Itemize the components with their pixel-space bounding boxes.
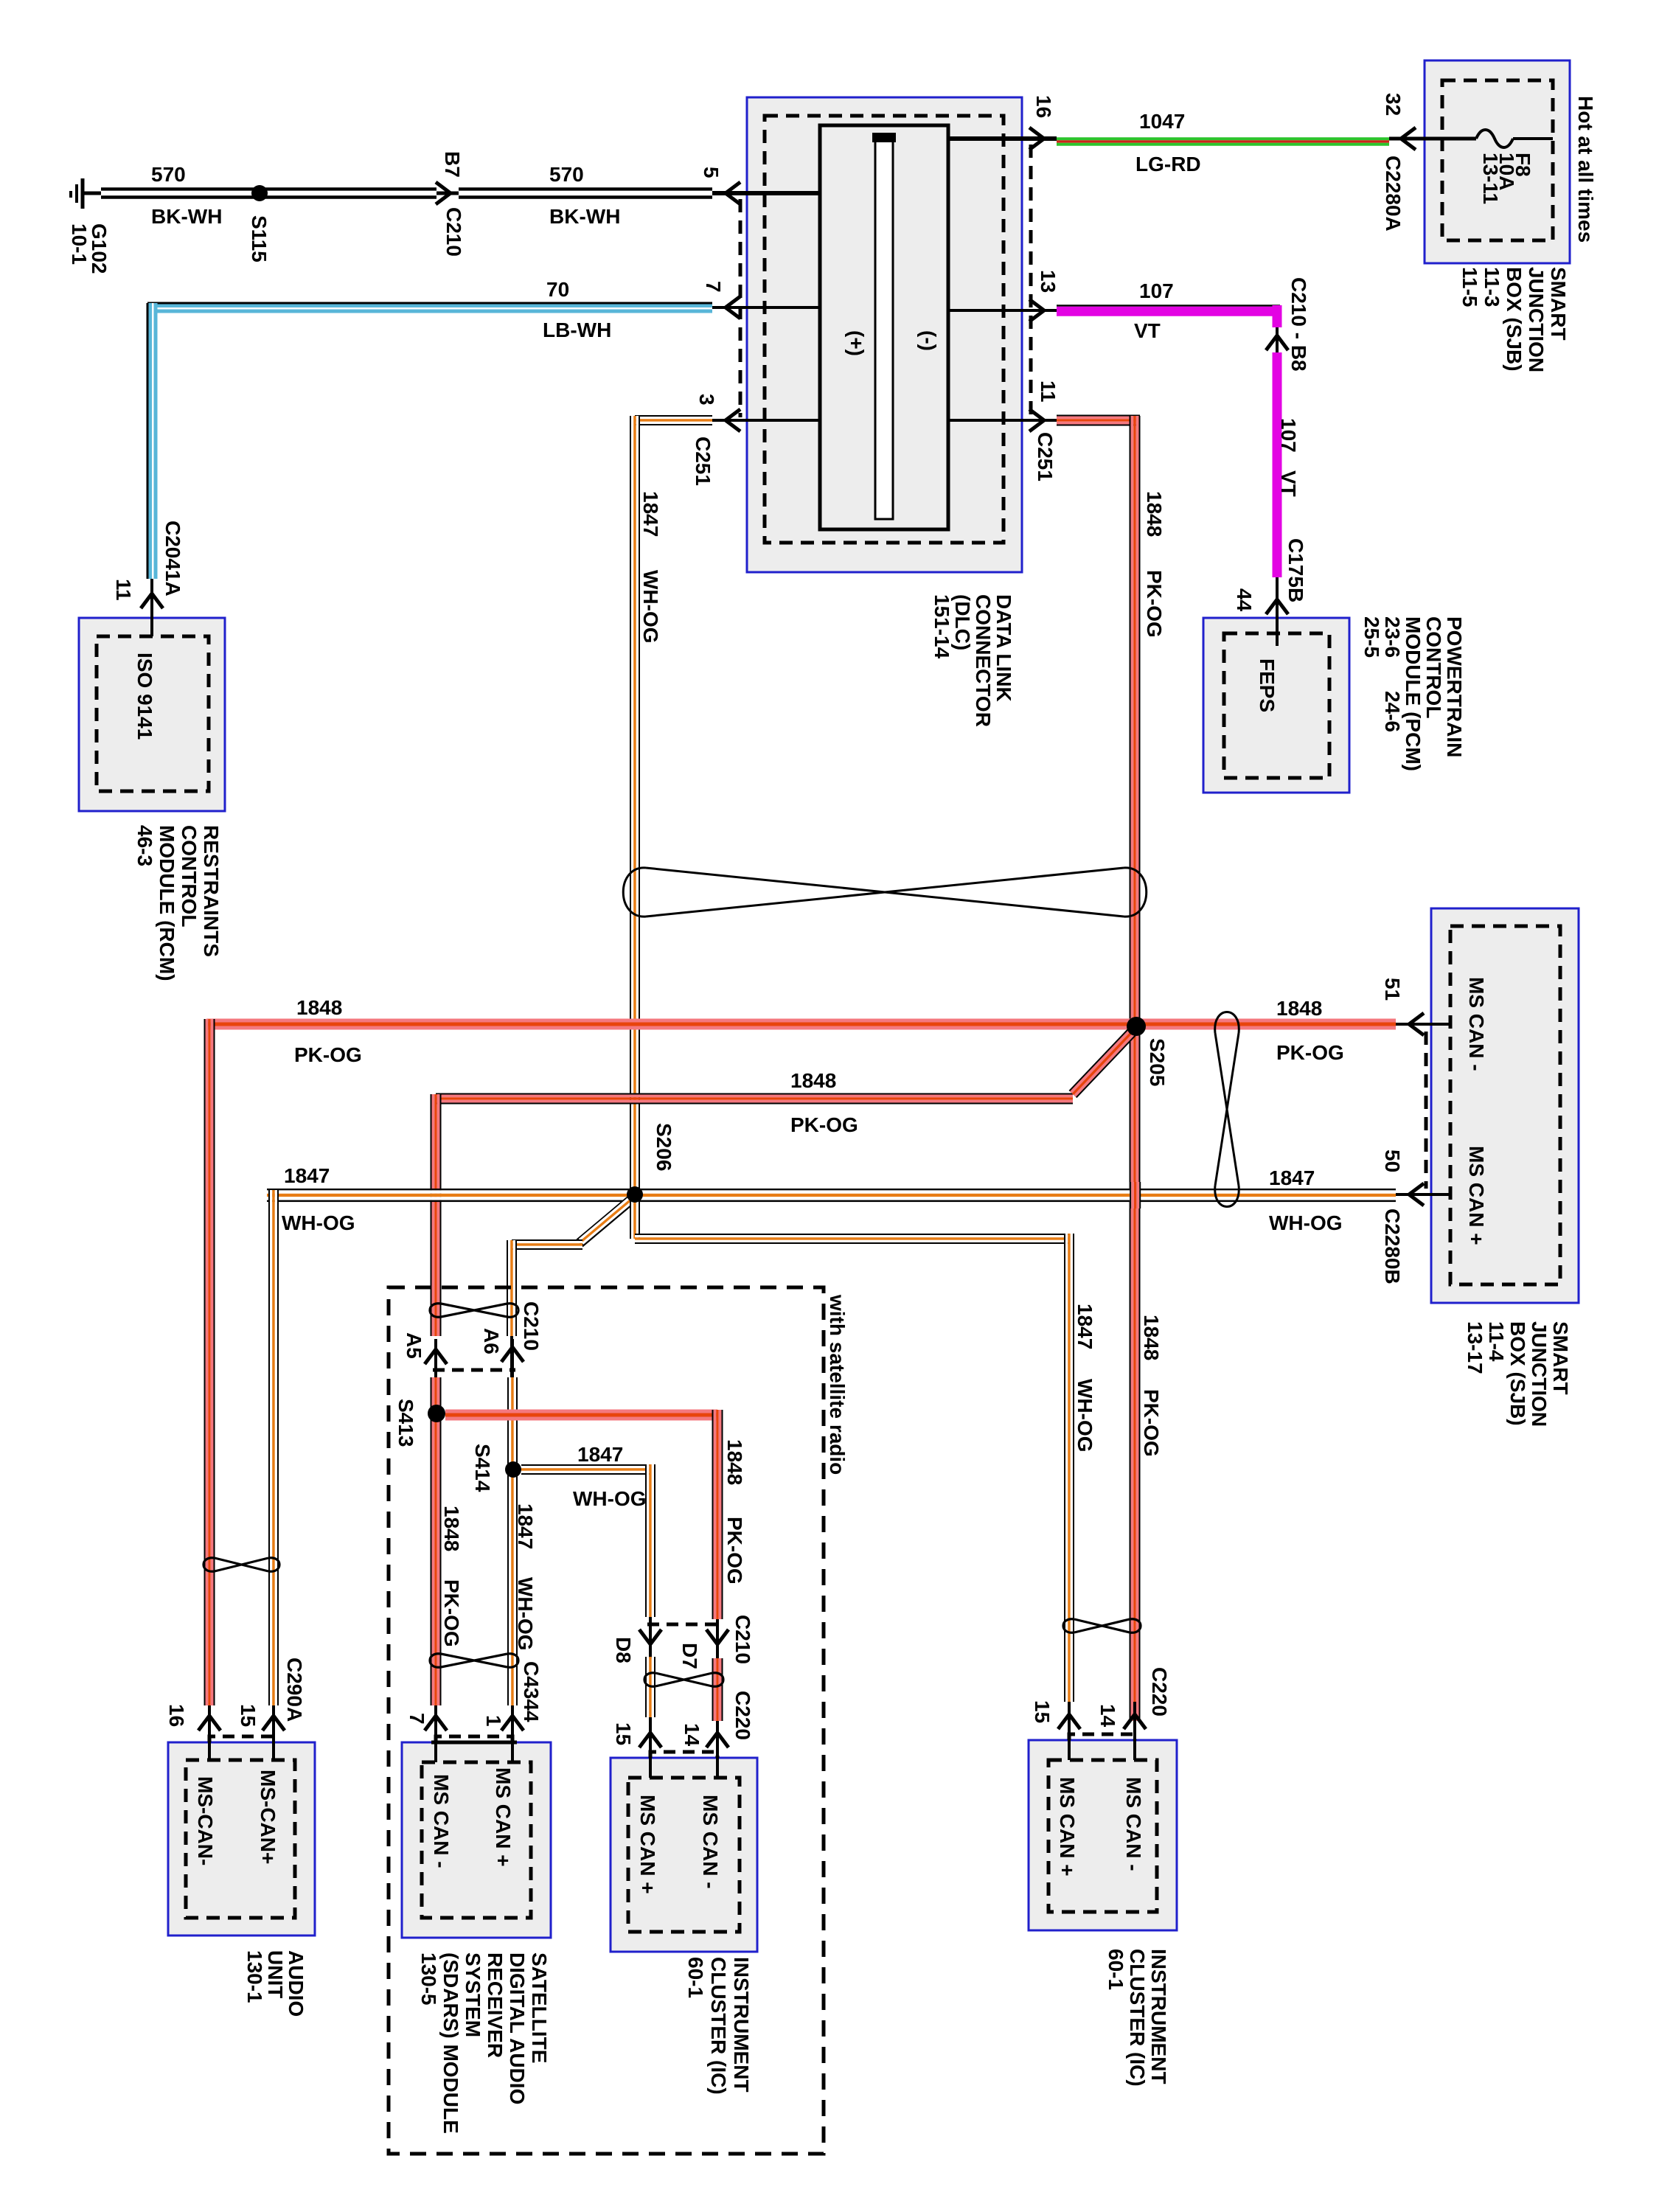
svg-text:C251: C251 xyxy=(692,437,714,486)
svg-text:1847: 1847 xyxy=(514,1503,537,1549)
svg-text:(+): (+) xyxy=(845,330,868,356)
svg-text:(-): (-) xyxy=(917,330,940,351)
wire 1848 PK-OG down to SDARS pin 7 xyxy=(431,1377,432,1705)
twisted pair symbol satellite bottom xyxy=(441,1654,507,1667)
svg-text:MS CAN +: MS CAN + xyxy=(492,1767,515,1867)
svg-text:A6: A6 xyxy=(480,1328,503,1354)
DLC inner connector body xyxy=(820,125,948,529)
svg-text:1847: 1847 xyxy=(577,1443,623,1466)
svg-text:14: 14 xyxy=(1096,1704,1119,1728)
svg-text:PK-OG: PK-OG xyxy=(294,1043,362,1066)
arrow into SJB pin 50 xyxy=(1396,1193,1450,1196)
svg-text:C220: C220 xyxy=(731,1691,754,1740)
arrow IC3 pin 14 xyxy=(706,1733,728,1747)
arrow A6 xyxy=(511,1339,514,1377)
IC4 dashed boundary xyxy=(1048,1760,1157,1912)
svg-text:S414: S414 xyxy=(471,1444,494,1492)
svg-text:B7: B7 xyxy=(441,151,464,178)
connector arrow B7 C210 xyxy=(436,182,451,204)
svg-text:1848: 1848 xyxy=(440,1506,463,1551)
FEPS dashed boundary xyxy=(1224,633,1329,778)
svg-text:570: 570 xyxy=(549,163,584,186)
twisted pair symbol IC3 xyxy=(655,1673,712,1686)
RCM box xyxy=(79,618,225,811)
arrow audio pin 16 xyxy=(208,1705,211,1760)
wire 1847 WH-OG DLC pin 3 down xyxy=(635,415,712,417)
svg-text:1047: 1047 xyxy=(1139,110,1185,133)
svg-text:16: 16 xyxy=(165,1704,188,1727)
SDARS connector bar xyxy=(431,1741,517,1745)
svg-text:MS CAN -: MS CAN - xyxy=(699,1795,722,1889)
arrow IC4 pin 14 xyxy=(1133,1702,1136,1760)
svg-text:570: 570 xyxy=(151,163,186,186)
wire 107 VT DLC pin 13 to PCM xyxy=(948,309,1057,312)
wire 570 BK-WH C210 to DLC pin 5 xyxy=(459,187,712,191)
SDARS dashed boundary xyxy=(422,1762,531,1918)
FEPS box xyxy=(1203,618,1349,793)
svg-text:1: 1 xyxy=(482,1715,505,1727)
SJB bottom dashed boundary xyxy=(1450,926,1560,1284)
svg-text:C210: C210 xyxy=(520,1301,543,1351)
svg-text:11: 11 xyxy=(112,579,135,601)
svg-text:BK-WH: BK-WH xyxy=(549,205,620,228)
wire 1848 PK-OG branch via S205 diagonal xyxy=(436,1093,1073,1095)
svg-text:C175B: C175B xyxy=(1284,538,1307,602)
svg-text:PK-OG: PK-OG xyxy=(1276,1041,1344,1064)
arrow audio pin 15 xyxy=(272,1705,275,1760)
arrow A5 xyxy=(434,1339,437,1377)
wire 1847 WH-OG S206 to satellite branch xyxy=(580,1200,630,1243)
fuse F8 10A xyxy=(1476,130,1513,147)
arrow out of DLC pin 13 xyxy=(1029,299,1044,321)
svg-text:13: 13 xyxy=(1037,270,1060,293)
arrow SDARS pin 7 xyxy=(434,1705,437,1762)
wire crossing patch S413 pink over WH vertical xyxy=(503,1410,522,1421)
svg-text:MS CAN +: MS CAN + xyxy=(1465,1146,1488,1245)
wire 1847 WH-OG main horizontal to SJB xyxy=(267,1189,1396,1191)
svg-text:51: 51 xyxy=(1381,978,1404,1001)
svg-text:ISO 9141: ISO 9141 xyxy=(133,653,156,740)
svg-text:PK-OG: PK-OG xyxy=(1140,1389,1163,1457)
INSTRUMENT CLUSTER box inside satellite option xyxy=(611,1758,757,1952)
arrow RCM pin 11 xyxy=(141,594,163,608)
svg-text:44: 44 xyxy=(1233,588,1256,612)
SJB bottom dashed jog C2280B xyxy=(1425,1032,1428,1189)
svg-text:MS CAN +: MS CAN + xyxy=(1056,1777,1079,1877)
svg-text:15: 15 xyxy=(612,1722,635,1745)
svg-text:S205: S205 xyxy=(1146,1038,1169,1086)
svg-text:Hot at all times: Hot at all times xyxy=(1574,96,1597,243)
wire 1047 LG-RD DLC pin 16 to SJB xyxy=(948,136,1057,141)
svg-text:C4344: C4344 xyxy=(520,1661,543,1722)
AUDIO UNIT dashed boundary xyxy=(186,1760,295,1918)
wire 1848 PK-OG S413 branch right xyxy=(445,1410,717,1413)
svg-text:32: 32 xyxy=(1382,93,1405,116)
RCM dashed boundary xyxy=(97,636,209,791)
IC3 dashed boundary xyxy=(628,1778,740,1932)
svg-text:C210: C210 xyxy=(442,207,465,257)
arrows D8 D7 connector C210 xyxy=(647,1623,719,1627)
svg-text:1847: 1847 xyxy=(639,491,662,537)
svg-text:PK-OG: PK-OG xyxy=(790,1113,858,1136)
svg-text:15: 15 xyxy=(237,1704,260,1727)
arrow IC3 pin 15 xyxy=(639,1733,661,1747)
svg-text:16: 16 xyxy=(1032,95,1055,118)
svg-text:WH-OG: WH-OG xyxy=(514,1577,537,1651)
svg-text:1847: 1847 xyxy=(1269,1166,1315,1189)
twisted pair symbol top xyxy=(646,868,1124,917)
svg-text:D7: D7 xyxy=(678,1643,701,1669)
wire WH-OG D8 to IC xyxy=(645,1657,647,1717)
wire 1847 WH-OG down to SDARS pin 1 xyxy=(507,1377,509,1705)
wire PK-OG D7 to IC xyxy=(712,1658,714,1721)
INSTRUMENT CLUSTER box standard xyxy=(1029,1740,1177,1930)
svg-text:C210: C210 xyxy=(731,1615,754,1664)
arrow SDARS pin 1 xyxy=(511,1705,514,1762)
svg-text:C251: C251 xyxy=(1034,432,1057,481)
svg-text:1848: 1848 xyxy=(1143,491,1166,537)
twisted pair symbol right vertical xyxy=(1215,1033,1239,1186)
svg-text:FEPS: FEPS xyxy=(1256,658,1279,712)
connector dashed C290A xyxy=(209,1736,274,1742)
twisted pair symbol IC4 xyxy=(1074,1619,1130,1632)
arrow into DLC pin 3 xyxy=(726,409,740,431)
twisted pair symbol satellite top xyxy=(441,1304,507,1317)
connector dashed C220 ic4 xyxy=(1069,1734,1135,1740)
SJB top dashed boundary xyxy=(1442,80,1553,240)
svg-text:11: 11 xyxy=(1037,380,1060,403)
svg-text:WH-OG: WH-OG xyxy=(639,570,662,644)
SDARS box xyxy=(402,1742,551,1938)
DLC slot xyxy=(875,135,893,519)
svg-text:3: 3 xyxy=(695,394,718,406)
splice S205 xyxy=(1127,1017,1146,1036)
arrow into SJB C2280A xyxy=(1401,128,1416,150)
svg-text:1847: 1847 xyxy=(1074,1304,1096,1349)
connector dashed C4344 xyxy=(436,1736,512,1742)
wire 1847 WH-OG S414 branch right xyxy=(521,1464,650,1466)
svg-text:with satellite radio: with satellite radio xyxy=(826,1294,849,1475)
splice S414 xyxy=(505,1461,521,1478)
svg-text:5: 5 xyxy=(700,167,723,178)
SJB top box xyxy=(1425,60,1570,263)
arrow into DLC pin 5 xyxy=(726,182,740,204)
wire 70 LB-WH DLC pin 7 to RCM xyxy=(147,302,712,305)
twisted pair symbol audio pair xyxy=(215,1558,268,1571)
splice S115 xyxy=(251,185,268,201)
svg-text:S206: S206 xyxy=(653,1123,675,1171)
svg-text:1848: 1848 xyxy=(296,996,342,1019)
svg-text:1848: 1848 xyxy=(1276,997,1322,1020)
svg-text:WH-OG: WH-OG xyxy=(573,1487,647,1510)
svg-text:C220: C220 xyxy=(1148,1667,1171,1717)
svg-text:1848: 1848 xyxy=(1140,1315,1163,1360)
svg-text:C2041A: C2041A xyxy=(161,521,184,597)
arrow into SJB pin 51 xyxy=(1396,1023,1450,1026)
wire 1848 PK-OG DLC pin 11 down xyxy=(1057,415,1140,417)
svg-text:1848: 1848 xyxy=(723,1439,746,1485)
AUDIO UNIT box xyxy=(168,1742,315,1935)
ground G102 xyxy=(81,178,85,209)
svg-text:MS CAN -: MS CAN - xyxy=(430,1774,453,1868)
svg-text:7: 7 xyxy=(702,281,725,293)
svg-text:S115: S115 xyxy=(248,215,271,262)
svg-text:WH-OG: WH-OG xyxy=(1269,1211,1343,1234)
DLC dashed boundary xyxy=(765,116,1004,543)
wire 1848 PK-OG main horizontal to SJB xyxy=(206,1019,1396,1023)
wire 107 VT vertical to FEPS xyxy=(1273,352,1282,577)
svg-text:50: 50 xyxy=(1381,1150,1404,1172)
svg-text:LB-WH: LB-WH xyxy=(543,319,611,341)
arrow out of DLC pin 16 xyxy=(1029,128,1044,150)
DLC dashed jog right C251 xyxy=(1029,145,1033,417)
connector dashed C220 ic3 xyxy=(650,1752,717,1758)
svg-text:D8: D8 xyxy=(612,1637,635,1663)
svg-text:PK-OG: PK-OG xyxy=(1143,570,1166,638)
svg-text:MS CAN +: MS CAN + xyxy=(636,1795,659,1894)
svg-text:7: 7 xyxy=(406,1713,428,1725)
svg-text:MS-CAN+: MS-CAN+ xyxy=(257,1770,279,1864)
svg-text:C2280B: C2280B xyxy=(1381,1208,1404,1284)
svg-text:C2280A: C2280A xyxy=(1382,156,1405,232)
arrow into DLC pin 7 xyxy=(726,296,740,319)
svg-text:C290A: C290A xyxy=(283,1658,306,1722)
svg-text:PK-OG: PK-OG xyxy=(440,1579,463,1647)
svg-text:BK-WH: BK-WH xyxy=(151,205,222,228)
connector arrow C210-B8 xyxy=(1276,327,1279,352)
wire 570 BK-WH ground to C210 xyxy=(101,187,437,191)
svg-text:WH-OG: WH-OG xyxy=(282,1211,355,1234)
svg-text:S413: S413 xyxy=(394,1399,417,1447)
svg-text:107: 107 xyxy=(1277,418,1300,453)
arrow out of DLC pin 11 xyxy=(1029,409,1044,431)
svg-text:70: 70 xyxy=(546,278,569,301)
svg-text:MS CAN -: MS CAN - xyxy=(1122,1777,1145,1871)
svg-text:PK-OG: PK-OG xyxy=(723,1517,746,1585)
satellite radio dashed box xyxy=(389,1287,824,2154)
svg-text:WH-OG: WH-OG xyxy=(1074,1379,1096,1453)
svg-text:MS-CAN-: MS-CAN- xyxy=(194,1776,217,1865)
wire crossing patch vertical 1848 over 1847 xyxy=(1130,1182,1140,1208)
svg-text:1848: 1848 xyxy=(790,1069,836,1092)
wire 1847 WH-OG S206 to instrument cluster xyxy=(630,1194,631,1239)
svg-text:14: 14 xyxy=(681,1723,703,1747)
svg-text:C210 - B8: C210 - B8 xyxy=(1287,277,1310,372)
SJB bottom box xyxy=(1431,908,1579,1303)
DLC dashed jog left C251 xyxy=(739,199,742,417)
svg-text:A5: A5 xyxy=(403,1332,425,1359)
svg-text:1847: 1847 xyxy=(284,1164,330,1187)
svg-text:LG-RD: LG-RD xyxy=(1135,153,1201,175)
splice S413 xyxy=(428,1405,445,1422)
svg-text:VT: VT xyxy=(1277,470,1300,497)
connector dashed C210 satellite xyxy=(433,1368,515,1372)
arrow into FEPS pin 44 xyxy=(1276,577,1279,646)
svg-text:VT: VT xyxy=(1134,319,1161,342)
svg-text:15: 15 xyxy=(1031,1700,1054,1723)
svg-text:MS CAN -: MS CAN - xyxy=(1465,977,1488,1071)
svg-text:107: 107 xyxy=(1139,279,1174,302)
arrow IC4 pin 15 xyxy=(1068,1702,1071,1760)
splice S206 xyxy=(627,1186,643,1203)
DATA LINK CONNECTOR (DLC) box xyxy=(747,97,1022,572)
